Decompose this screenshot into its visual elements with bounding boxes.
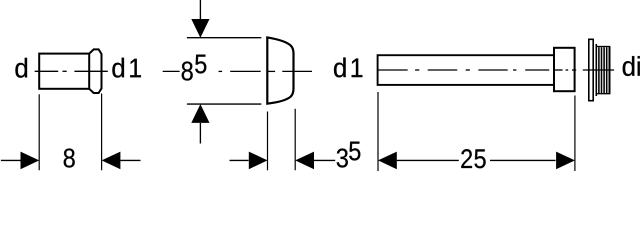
part 2 height dim: extension line top	[187, 37, 261, 39]
dim value 25: digit 2	[461, 149, 472, 168]
dim value 25: digit 5	[474, 149, 485, 168]
part 1 arrowhead pointing left	[102, 152, 121, 170]
part 3 gasket block bottom edge	[596, 93, 611, 95]
dim value 8 (part1)	[64, 148, 75, 167]
part 2 height dim: extension line bottom	[187, 103, 261, 105]
part 1 body rectangle	[39, 54, 89, 89]
part 2 dim 3.5: left leader	[230, 159, 249, 161]
part 3 dim 25: extension line right	[574, 96, 576, 172]
label d1 (part1): 1	[130, 59, 141, 78]
value 8.5 height: superscript 5	[195, 55, 206, 74]
part 2 dim 3.5: extension line left	[267, 112, 269, 171]
part 2 dim 3.5: extension line right	[294, 109, 296, 171]
part 3 gasket block top edge	[596, 46, 611, 48]
part 2 arrowhead pointing down	[191, 19, 209, 38]
part 3 arrowhead pointing right	[556, 152, 575, 170]
part 2 arrowhead pointing left	[295, 152, 314, 170]
part 3 arrowhead pointing left	[378, 152, 397, 170]
dim value 3.5: digit 3	[337, 148, 348, 167]
part 1 dim 8: right leader	[120, 159, 140, 161]
part 1 dim 8: left leader	[1, 159, 21, 161]
part 2 arrowhead pointing up	[191, 104, 209, 123]
part 2 dim 3.5: right leader	[314, 159, 335, 161]
part 3 tube centerline	[378, 69, 615, 71]
part 3 gasket right edge bar	[609, 47, 611, 94]
part 2 cap outline	[267, 37, 293, 103]
part 1 sleeve centerline	[35, 70, 108, 72]
part 2 height dim: top arrow stem	[199, 0, 201, 19]
part 3 tube body	[378, 55, 554, 85]
part 3 gasket flange	[589, 39, 593, 100]
part 3 dim 25: left leader	[397, 159, 459, 161]
part 3 dim 25: extension line left	[377, 92, 379, 171]
part 2 cap centerline	[163, 70, 312, 72]
part 3 gasket ribs	[599, 47, 607, 93]
label d1 (part2): 1	[352, 59, 363, 78]
part 3 gasket tall first rib	[595, 44, 597, 96]
part 1 bead end cap	[89, 49, 101, 93]
label di (part3): i	[638, 56, 640, 76]
part 1 dim 8: extension line right	[101, 94, 103, 171]
label d1 (part1): d	[112, 58, 124, 78]
part 1 dim 8: extension line left	[38, 94, 40, 170]
part 3 end cap	[554, 48, 575, 91]
label d1 (part2): d	[334, 58, 346, 78]
part 1 arrowhead pointing right	[21, 152, 40, 170]
value 8.5 height: digit 8	[182, 61, 193, 80]
part 3 dim 25: right leader	[490, 159, 556, 161]
label di (part3): d	[623, 56, 635, 76]
part 2 height dim: bottom arrow stem	[199, 123, 201, 144]
part 2 arrowhead pointing right	[249, 152, 268, 170]
label d (part1 left)	[15, 58, 27, 78]
dim value 3.5: superscript 5	[349, 142, 360, 161]
